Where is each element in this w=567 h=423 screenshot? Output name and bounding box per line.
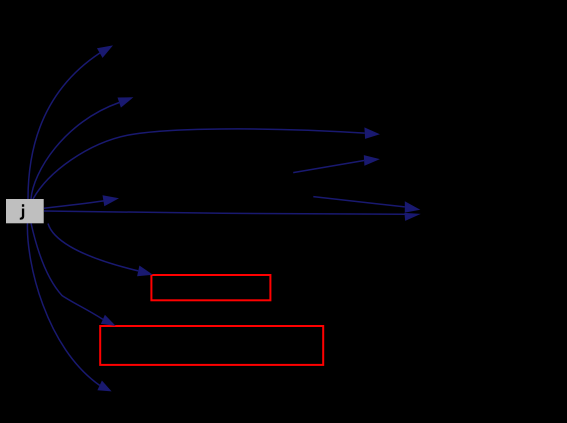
edge j->n1 (top-left curve) bbox=[28, 53, 100, 199]
node box2 (red, truncated) bbox=[100, 326, 323, 365]
edge j->n2 bbox=[31, 103, 119, 200]
node box1 (red, truncated) bbox=[151, 275, 270, 300]
edge j->n3 (long flat curve) bbox=[33, 129, 365, 199]
arrowhead n1 bbox=[97, 45, 113, 58]
arrowhead n3 bbox=[364, 127, 380, 138]
arrowhead n6 bbox=[103, 195, 120, 206]
arrowhead box1 bbox=[137, 266, 153, 277]
edge hidden2->n5 (segment) bbox=[313, 197, 405, 207]
arrowhead box2 bbox=[101, 315, 116, 326]
arrowhead n2 bbox=[118, 97, 134, 107]
edge hidden1->n4 (segment) bbox=[293, 160, 364, 172]
edge j->box1 bbox=[48, 224, 138, 271]
edge j->n6 (short arrow) bbox=[44, 201, 104, 208]
edge j->n5 (long horizontal) bbox=[44, 211, 405, 214]
arrowhead n5 upper bbox=[405, 201, 421, 212]
edge j->n7 (bottom curve) bbox=[27, 223, 99, 385]
label j bbox=[20, 204, 24, 220]
edge j->box2 bbox=[31, 223, 103, 319]
node j (grey box) bbox=[6, 199, 44, 223]
arrowhead n4 bbox=[364, 155, 380, 166]
arrowhead n5 lower bbox=[404, 213, 420, 221]
arrowhead n7 bbox=[97, 381, 111, 392]
